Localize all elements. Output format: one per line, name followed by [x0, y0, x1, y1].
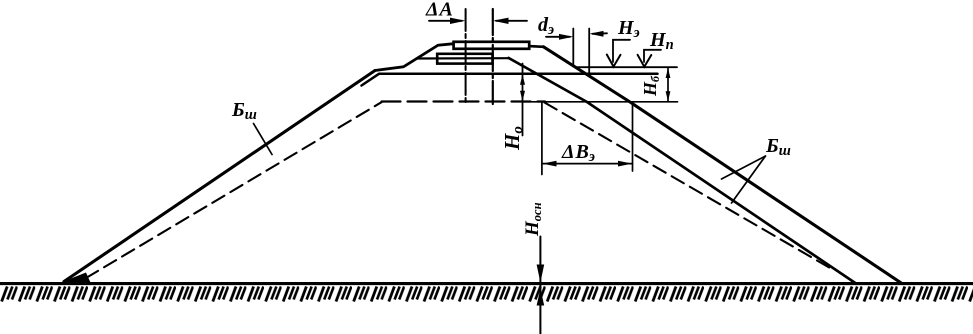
B_sh left leader: [254, 124, 273, 155]
svg-text:Бш: Бш: [765, 135, 791, 159]
H_p open arrowhead: [638, 55, 652, 67]
dim deltaB right extension vertical: [632, 104, 634, 172]
H_osn vertical line: [539, 237, 541, 334]
arrowhead d_e right-pointing: [559, 34, 573, 40]
svg-text:dэ: dэ: [538, 14, 554, 38]
dim d_e arrow line left: [546, 36, 570, 38]
svg-text:Нп: Нп: [649, 29, 674, 53]
ballast box old (rect2): [437, 54, 492, 64]
left slope dashed (old profile): [86, 102, 382, 278]
wedge at left slope foot: [58, 273, 91, 284]
H_p leader: [644, 50, 661, 62]
right slope outer (new): [544, 47, 903, 284]
left slope solid (new profile): [64, 71, 375, 282]
axis line 1 (old axis): [465, 9, 467, 104]
svg-text:ΔA: ΔA: [425, 0, 453, 21]
dim deltaB dimension line: [542, 163, 633, 165]
right slope dashed (old core): [545, 103, 831, 269]
arrowhead deltaA right-pointing: [450, 18, 466, 24]
arrowhead H_osn up: [537, 289, 545, 306]
dashed horizontal old crest line: [382, 100, 546, 102]
arrowhead H_b up: [666, 68, 671, 78]
arrowhead H_o down: [520, 91, 525, 101]
crest step polyline: [375, 44, 453, 71]
arrowhead H_b down: [666, 91, 671, 101]
svg-text:Бш: Бш: [231, 99, 257, 123]
H_o vertical line: [522, 64, 524, 136]
lower extension line y=101.8: [523, 101, 678, 103]
ground line: [0, 282, 973, 285]
arrowhead deltaB left-pointing: [542, 161, 556, 167]
d_e extension vertical 1: [572, 29, 574, 67]
arrowhead H_osn down: [537, 265, 545, 283]
B_sh right leader 1: [722, 156, 766, 179]
shoulder line (bend + horizontal): [362, 74, 658, 86]
right slope inner (old): [509, 58, 857, 284]
svg-text:ΔВэ: ΔВэ: [561, 141, 595, 165]
H_e leader: [613, 40, 630, 62]
dim d_e arrow line right: [593, 32, 608, 35]
arrowhead d_e left-pointing: [589, 31, 603, 37]
B_sh right leader 2: [732, 156, 766, 203]
d_e extension vertical 2: [588, 29, 590, 77]
ballast box new (rect1): [454, 42, 530, 49]
svg-text:Нэ: Нэ: [617, 17, 640, 41]
upper extension line y=67: [577, 66, 677, 68]
arrowhead deltaA left-pointing: [493, 18, 509, 24]
ground hatching: [0, 285, 973, 303]
rect2 midline with left and right connectors: [417, 57, 508, 59]
svg-text:Но: Но: [500, 126, 526, 151]
arrowhead H_o up: [520, 74, 525, 84]
H_b dimension vertical: [667, 69, 669, 101]
axis line 2 (new axis): [492, 9, 494, 104]
arrowhead deltaB right-pointing: [618, 161, 632, 167]
svg-text:Нб: Нб: [640, 75, 662, 97]
dim deltaB left extension vertical: [541, 103, 543, 175]
rect1 right connector: [531, 45, 544, 48]
H_e open arrowhead: [607, 55, 621, 67]
dim deltaA line right: [496, 20, 527, 22]
svg-text:Носн: Носн: [522, 202, 544, 237]
dim deltaA line left: [429, 20, 462, 22]
